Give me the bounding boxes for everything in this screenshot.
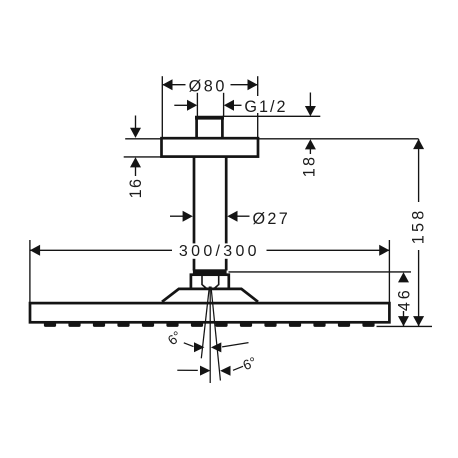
bottom reference line (158/46 dims) [377,325,433,327]
extension line G1/2 left [196,93,198,117]
dimension O80 [162,84,257,86]
svg-text:18: 18 [301,155,319,177]
pipe (drop tube) [194,156,226,272]
dimension 46 [403,311,405,326]
extension line 300 left [29,240,31,302]
svg-text:G1/2: G1/2 [244,98,287,116]
spray nozzles [44,322,375,327]
nut inner detail [202,276,219,289]
svg-text:158: 158 [409,208,427,245]
extension line 300 right [388,240,390,302]
svg-text:Ø27: Ø27 [253,210,291,228]
extension line O80 left [161,76,163,138]
connector nut black cap [193,269,227,274]
spray angle 6 deg upper [184,343,194,347]
nut top extension line (46 dim) [229,271,412,273]
connector nut body [191,275,229,289]
ceiling reference line [125,138,418,140]
shower head plate [30,303,389,322]
thread top extension line (18 dim) [223,115,321,117]
svg-text:46: 46 [395,287,413,311]
svg-text:16: 16 [127,178,145,199]
escutcheon bottom extension line (16 dim) [124,156,161,158]
svg-text:Ø80: Ø80 [189,78,227,96]
thread connector G1/2 [195,118,224,139]
dimension 158 [418,139,420,326]
ceiling escutcheon plate [162,138,259,156]
dimension G1/2 [174,104,188,106]
spray angle lines [201,287,220,384]
extension line G1/2 right [223,93,225,117]
dimension O27 [170,215,184,217]
head hub trapezoid [162,289,258,302]
spray angle 6 deg lower [177,369,198,371]
dimension 18 [309,93,311,155]
dimension 300/300 [30,249,390,251]
extension line O80 right [257,76,259,138]
dimension 16 [135,116,137,177]
svg-text:300/300: 300/300 [179,243,260,260]
